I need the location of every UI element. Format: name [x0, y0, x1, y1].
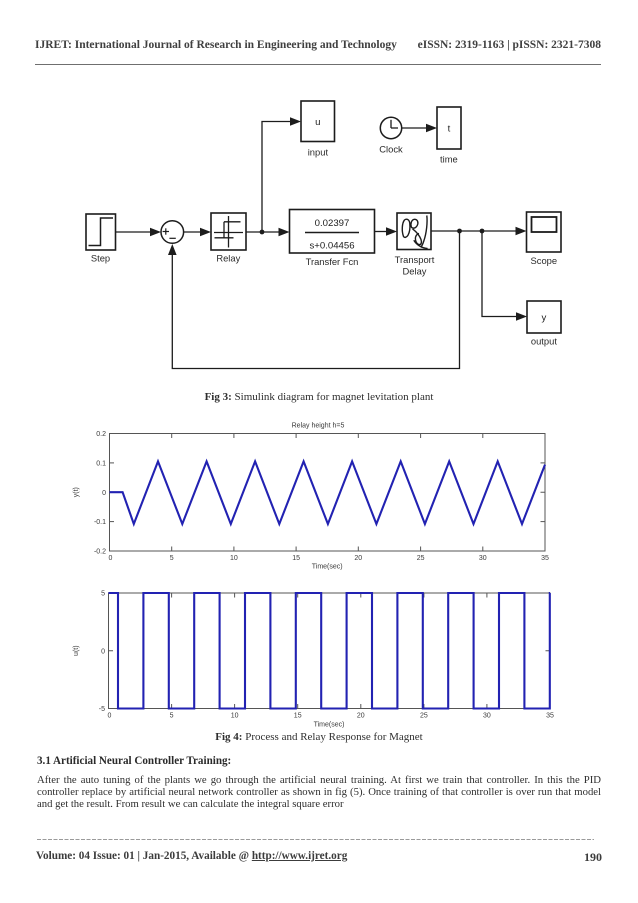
junction feedback — [457, 229, 462, 234]
transport delay icon — [402, 216, 427, 249]
plot 1: relay height — [0, 415, 638, 580]
svg-text:y: y — [542, 313, 547, 324]
arrowhead into scope — [516, 227, 527, 236]
x ticks — [171, 547, 173, 552]
wire Transport Delay to Scope — [431, 230, 516, 232]
block input (u) — [301, 101, 335, 142]
arrowhead into sum — [150, 228, 161, 237]
svg-text:30: 30 — [483, 713, 491, 720]
svg-text:0.02397: 0.02397 — [315, 218, 350, 229]
wire Sum to Relay — [184, 231, 201, 233]
caption Fig 4 — [0, 731, 638, 743]
arrowhead into output block — [516, 312, 527, 321]
svg-text:15: 15 — [292, 555, 300, 562]
svg-text:y(t): y(t) — [73, 487, 80, 497]
svg-text:20: 20 — [357, 713, 365, 720]
svg-text:u: u — [315, 117, 320, 128]
wire Transfer Fcn to Transport Delay — [375, 231, 388, 233]
svg-text:0.2: 0.2 — [96, 431, 106, 438]
svg-text:0: 0 — [109, 555, 113, 562]
svg-text:Transfer Fcn: Transfer Fcn — [306, 256, 359, 267]
arrowhead into transport delay — [386, 227, 397, 236]
block time (t) — [437, 107, 461, 149]
header right — [418, 40, 601, 51]
svg-text:-0.1: -0.1 — [94, 519, 106, 526]
svg-text:0: 0 — [101, 648, 105, 655]
svg-text:Relay height h=5: Relay height h=5 — [292, 423, 345, 430]
svg-text:Scope: Scope — [531, 255, 558, 266]
svg-text:Transport: Transport — [395, 254, 435, 265]
wire Relay to Transfer Fcn — [246, 231, 280, 233]
section heading — [37, 755, 231, 767]
sum minus sign — [169, 237, 175, 239]
svg-text:time: time — [440, 154, 458, 165]
svg-text:Relay: Relay — [216, 253, 240, 264]
svg-text:input: input — [308, 147, 329, 158]
svg-text:5: 5 — [170, 555, 174, 562]
svg-text:35: 35 — [541, 555, 549, 562]
y ticks — [110, 462, 115, 464]
arrowhead into input block — [290, 117, 301, 126]
caption Fig 3 — [0, 391, 638, 403]
junction output — [480, 229, 485, 234]
svg-text:Clock: Clock — [379, 144, 403, 155]
svg-text:5: 5 — [101, 591, 105, 598]
block Relay — [211, 213, 246, 250]
plot1 trace — [110, 461, 546, 524]
block Transport Delay — [397, 213, 431, 250]
svg-text:10: 10 — [230, 555, 238, 562]
arrowhead into relay — [200, 228, 211, 237]
svg-text:35: 35 — [546, 713, 554, 720]
svg-text:Time(sec): Time(sec) — [312, 564, 343, 571]
wire Clock to time block — [402, 127, 427, 129]
svg-text:output: output — [531, 336, 557, 347]
footer dashed rule — [37, 839, 594, 840]
transfer fcn fraction bar — [305, 232, 359, 234]
svg-text:25: 25 — [420, 713, 428, 720]
svg-text:s+0.04456: s+0.04456 — [309, 241, 354, 252]
clock — [380, 117, 401, 138]
page number — [584, 850, 602, 865]
svg-text:u(t): u(t) — [73, 645, 80, 656]
sum plus sign — [163, 228, 176, 238]
block Transfer Fcn — [290, 210, 375, 254]
header left — [35, 40, 397, 51]
svg-text:20: 20 — [354, 555, 362, 562]
scope screen — [532, 217, 557, 232]
block output (y) — [527, 301, 561, 333]
svg-text:-0.2: -0.2 — [94, 549, 106, 556]
svg-text:0: 0 — [102, 490, 106, 497]
svg-text:25: 25 — [417, 555, 425, 562]
Simulink block diagram — [0, 85, 638, 385]
svg-text:t: t — [448, 124, 451, 135]
sum junction — [161, 221, 184, 244]
wire branch to output block — [482, 231, 516, 317]
step icon — [89, 218, 114, 246]
footer text — [36, 850, 347, 862]
plot1 axes box — [110, 434, 546, 552]
svg-text:5: 5 — [170, 713, 174, 720]
svg-text:Delay: Delay — [403, 266, 427, 277]
block Step — [86, 214, 116, 250]
svg-text:Time(sec): Time(sec) — [314, 722, 345, 729]
svg-text:15: 15 — [294, 713, 302, 720]
svg-text:10: 10 — [231, 713, 239, 720]
junction after relay — [260, 230, 265, 235]
wire Step to Sum — [116, 231, 152, 233]
svg-text:-5: -5 — [99, 706, 105, 713]
arrowhead into sum from feedback — [168, 244, 177, 255]
arrowhead into transfer fcn — [279, 228, 290, 237]
paragraph — [37, 774, 601, 810]
svg-text:0: 0 — [108, 713, 112, 720]
block Scope — [527, 212, 562, 252]
arrowhead into time block — [426, 124, 437, 133]
wire branch up to input block — [262, 122, 290, 233]
plot2 trace — [109, 593, 551, 709]
header rule — [35, 64, 602, 66]
svg-text:Step: Step — [91, 253, 110, 264]
plot2 axes box — [109, 593, 551, 709]
plot 2: relay output — [0, 583, 638, 735]
wire feedback loop — [172, 231, 459, 369]
svg-text:30: 30 — [479, 555, 487, 562]
relay icon — [214, 216, 243, 248]
svg-text:0.1: 0.1 — [96, 461, 106, 468]
